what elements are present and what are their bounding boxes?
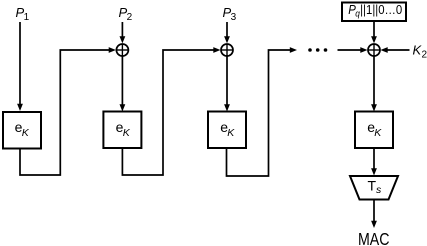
- svg-text:K: K: [22, 127, 30, 139]
- xor X3: [221, 44, 234, 57]
- block eK2: [103, 112, 141, 149]
- wire X3 to eK3: [224, 57, 230, 112]
- wire P1 to eK1: [17, 22, 23, 111]
- node P3: [223, 5, 237, 23]
- node K2: [413, 43, 427, 61]
- block Pq padding: [342, 2, 406, 21]
- svg-text:K: K: [123, 127, 131, 139]
- wire Pq box to xor X4: [371, 21, 377, 43]
- wire eK3 output toward dots: [227, 47, 298, 176]
- block eK3: [208, 112, 246, 149]
- wire eK2 output to xor X3: [122, 47, 220, 175]
- wire dots to xor X4: [338, 47, 368, 53]
- node MAC: [358, 229, 390, 246]
- ellipsis dots: [308, 48, 327, 52]
- wire X4 to eK4: [371, 57, 377, 112]
- node P2: [119, 5, 133, 23]
- wire P2 to xor X2: [120, 22, 126, 43]
- wire X2 to eK2: [120, 57, 126, 112]
- svg-text:||1||0…0: ||1||0…0: [360, 2, 402, 17]
- svg-text:K: K: [374, 127, 382, 139]
- xor X4: [368, 44, 381, 57]
- xor X2: [116, 44, 129, 57]
- node P1: [16, 5, 30, 23]
- svg-text:2: 2: [127, 12, 133, 23]
- wire Ts to MAC: [371, 201, 377, 229]
- wire P3 to xor X3: [224, 22, 230, 43]
- block eK1: [3, 112, 41, 149]
- block eK4: [355, 112, 393, 149]
- svg-text:MAC: MAC: [358, 229, 390, 246]
- svg-text:2: 2: [422, 50, 427, 61]
- svg-text:1: 1: [24, 12, 30, 23]
- svg-text:s: s: [376, 184, 382, 196]
- wire eK1 output to xor X2: [20, 47, 116, 175]
- svg-text:K: K: [227, 127, 235, 139]
- block Ts truncation trapezoid: [350, 176, 398, 200]
- wire eK4 to Ts: [371, 149, 377, 176]
- wire K2 to xor X4: [381, 47, 410, 53]
- svg-text:3: 3: [231, 12, 237, 23]
